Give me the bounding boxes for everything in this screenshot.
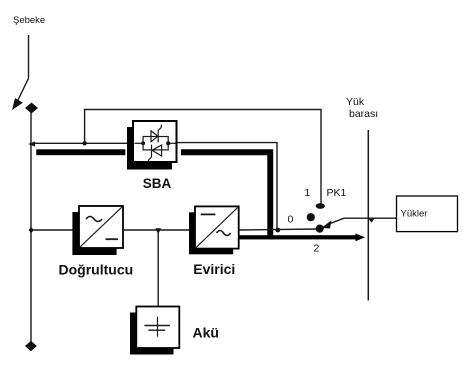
inverter box Evirici [195,206,239,248]
node junction dot bypass tap [82,141,86,145]
load box Yükler [397,196,458,232]
wire battery lead [157,230,159,307]
rectifier shadow [72,212,116,255]
SBA inner left stub [135,142,144,144]
wire inverter thin output line to switch [239,229,318,230]
arrowhead at load bus crossing [369,219,375,223]
svg-text:1: 1 [305,187,311,199]
wire AC feed to SBA (thin, y=143) [31,142,133,144]
rectifier diagonal [80,207,122,247]
svg-text:Evirici: Evirici [193,261,235,277]
switch lever wire to loads [328,218,397,224]
node small diamond at rail on DC line [29,227,35,233]
battery box Akü [136,307,179,349]
SBA inner left node [141,141,145,145]
rectifier AC tilde [86,217,102,222]
battery symbol [157,317,159,337]
SBA inner right node [166,141,170,145]
switch PK1 contact 0 [307,213,315,221]
svg-text:Doğrultucu: Doğrultucu [59,261,134,277]
SBA thyristor top (points right) [151,131,158,142]
wire bypass riser [85,110,321,205]
svg-text:2: 2 [314,243,320,255]
svg-text:0: 0 [288,214,294,226]
bus output arrowhead [356,234,366,242]
svg-text:Yükler: Yükler [401,209,428,220]
switch blade (mains disconnect diagonal) [18,78,29,101]
inverter shadow [189,212,233,254]
switch PK1 contact 1 [316,203,325,209]
SBA block shadow [127,127,172,170]
bus inverter thick output bar [239,235,356,239]
SBA inner loop [143,137,168,150]
inverter DC dash [201,213,216,215]
node junction dot inverter output [275,228,280,233]
node bottom diamond [25,341,37,352]
SBA box [133,121,177,162]
svg-text:Yük: Yük [346,96,365,108]
inverter diagonal [196,207,238,248]
rectifier DC dash [106,238,119,240]
wire SBA thin output line going right then down [178,143,278,228]
inverter AC tilde [217,231,231,236]
node junction dot battery tap [155,228,161,234]
svg-text:barası: barası [349,108,378,120]
wire rectifier to inverter [123,229,195,231]
battery shadow [130,313,174,355]
wire main line rail to rectifier [31,229,79,231]
switch lever arrowhead [322,220,332,228]
arrowhead of disconnect switch [12,98,23,110]
node small arrow junction at rail on AC line [28,142,35,147]
wire mains vertical lead [28,35,30,78]
SBA thyristor bottom (points left) [152,145,162,156]
svg-text:Akü: Akü [193,324,219,340]
svg-text:SBA: SBA [143,176,172,191]
node top diamond junction [25,103,38,114]
wire left rail [30,112,32,342]
bus load bus vertical line [367,130,369,301]
svg-text:Şebeke: Şebeke [13,15,45,26]
SBA inner right stub [168,142,175,144]
svg-text:PK1: PK1 [327,187,347,199]
bus thick AC bar left segment [36,149,125,155]
switch PK1 contact 2 [316,225,324,233]
rectifier box Doğrultucu [79,206,123,248]
bus thick AC bar right segment with corner going down [181,149,273,239]
